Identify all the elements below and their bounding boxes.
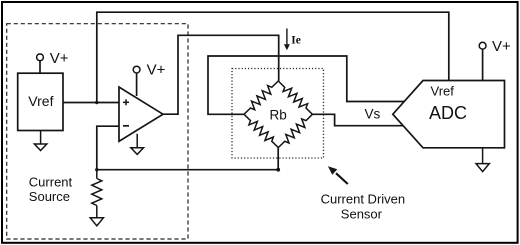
op-amp + input marker xyxy=(123,99,129,105)
svg-text:Current Driven: Current Driven xyxy=(321,192,406,207)
svg-text:Vs: Vs xyxy=(365,107,381,122)
ground (op-amp) xyxy=(131,134,144,155)
current driven sensor boundary (dotted box) xyxy=(232,69,324,159)
junction: Rset top xyxy=(95,168,98,171)
junction: sense rail corner xyxy=(276,168,280,172)
ADC block xyxy=(393,81,505,148)
svg-text:Vref: Vref xyxy=(431,84,455,99)
V+ supply terminal (ADC) xyxy=(479,42,486,49)
svg-text:Rb: Rb xyxy=(270,107,287,122)
Ie current arrow xyxy=(286,29,288,46)
svg-text:ADC: ADC xyxy=(429,103,467,123)
bridge resistor Rb bottom-left arm xyxy=(244,114,278,147)
ground (Rset) xyxy=(90,218,103,226)
svg-text:Ie: Ie xyxy=(291,35,301,47)
wire: bridge right node to ADC lower input (Vs-) xyxy=(312,114,403,125)
svg-text:Sensor: Sensor xyxy=(341,207,383,222)
svg-text:V+: V+ xyxy=(147,62,166,79)
V+ supply terminal (Vref block) xyxy=(37,54,44,61)
V+ supply terminal (op-amp) xyxy=(133,66,140,73)
op-amp - input marker xyxy=(123,125,129,127)
ground (Vref block) xyxy=(34,131,46,151)
current source boundary (dashed box) xyxy=(7,24,188,239)
op-amp U1 xyxy=(119,87,163,141)
svg-text:V+: V+ xyxy=(492,38,511,55)
wire: op-amp inverting input to sense node xyxy=(97,126,119,170)
wire: op-amp output up and over to bridge top xyxy=(163,35,279,114)
junction: reference net xyxy=(95,101,98,104)
bridge resistor Rb top-left arm xyxy=(244,81,278,114)
wire: bridge left node loop to ADC upper input (Vs+) xyxy=(208,56,404,114)
svg-text:Vref: Vref xyxy=(28,93,53,109)
wire: sense rail (bridge bottom to Rset top) xyxy=(97,169,278,171)
wire: Vref reference net to ADC (top loop) xyxy=(97,12,449,102)
svg-text:Current: Current xyxy=(29,174,73,189)
svg-text:Source: Source xyxy=(29,189,70,204)
bridge resistor Rb bottom-right arm xyxy=(278,114,312,147)
wire: bridge bottom node down to sense rail xyxy=(277,148,279,170)
svg-text:V+: V+ xyxy=(50,50,69,67)
Vref source block xyxy=(18,73,63,130)
ground (ADC) xyxy=(476,148,489,172)
wire: Vref output to op-amp non-inverting input xyxy=(63,102,119,104)
bridge resistor Rb top-right arm xyxy=(278,81,312,114)
resistor Rset (current set) xyxy=(92,170,102,218)
current driven sensor callout arrow xyxy=(328,166,348,184)
